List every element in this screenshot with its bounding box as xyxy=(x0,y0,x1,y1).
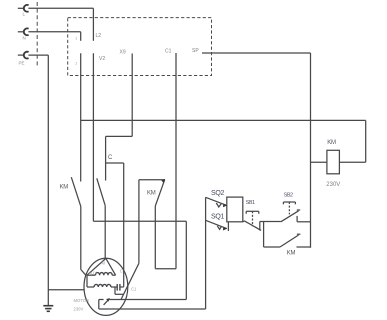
svg-text:SB1: SB1 xyxy=(246,200,255,206)
svg-text:SP: SP xyxy=(192,48,199,54)
svg-text:L: L xyxy=(23,12,26,17)
svg-text:PE: PE xyxy=(19,61,25,66)
svg-text:C: C xyxy=(108,155,113,161)
svg-text:C1: C1 xyxy=(131,287,137,292)
svg-text:SB2: SB2 xyxy=(284,193,293,199)
svg-text:L2: L2 xyxy=(96,33,102,39)
svg-text:AUX: AUX xyxy=(89,271,98,276)
svg-text:KM: KM xyxy=(327,140,336,146)
svg-text:SQ2: SQ2 xyxy=(211,190,225,197)
svg-text:V2: V2 xyxy=(99,56,105,62)
svg-text:KM: KM xyxy=(60,185,69,191)
svg-text:M: M xyxy=(102,261,106,266)
svg-text:KM: KM xyxy=(287,250,296,256)
svg-text:MOTOR: MOTOR xyxy=(74,298,90,303)
svg-text:230V: 230V xyxy=(74,307,84,312)
svg-text:1: 1 xyxy=(75,60,78,65)
svg-text:230V: 230V xyxy=(326,182,340,188)
svg-text:C: C xyxy=(120,269,123,274)
svg-text:1: 1 xyxy=(75,36,78,41)
svg-text:SQ1: SQ1 xyxy=(211,214,225,221)
svg-text:C1: C1 xyxy=(165,49,172,55)
svg-text:KM: KM xyxy=(147,191,156,197)
svg-text:X9: X9 xyxy=(120,50,126,56)
svg-text:N: N xyxy=(23,36,26,41)
